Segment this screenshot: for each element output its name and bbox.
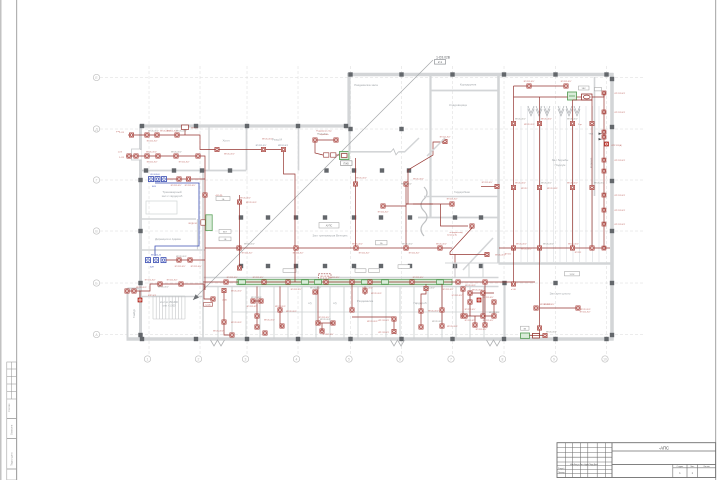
svg-text:ИП 212-3СУ: ИП 212-3СУ	[185, 185, 196, 187]
svg-text:ИП 212-3СУ: ИП 212-3СУ	[483, 297, 494, 299]
svg-text:ИП 212-3СУ: ИП 212-3СУ	[436, 244, 447, 246]
svg-text:Подиум: Подиум	[555, 163, 566, 167]
svg-text:12.0Б: 12.0Б	[205, 305, 211, 307]
svg-text:1-ОЗ.02В: 1-ОЗ.02В	[436, 55, 450, 59]
svg-text:ИП 212-3СУ: ИП 212-3СУ	[378, 212, 389, 214]
dashed zone label above corridor	[319, 274, 332, 278]
svg-text:ИП 212-3СУ: ИП 212-3СУ	[224, 154, 235, 156]
svg-text:ИП 212-3СУ: ИП 212-3СУ	[176, 131, 187, 133]
svg-text:1: 1	[147, 357, 149, 361]
smoke detector (604,112)	[602, 110, 606, 114]
svg-text:ИП 212-3СУ: ИП 212-3СУ	[175, 266, 186, 268]
svg-text:Лист: Лист	[690, 466, 694, 468]
ceiling branch wire	[441, 204, 469, 226]
svg-text:ИП 212-3СУ: ИП 212-3СУ	[561, 81, 572, 83]
SE cluster rooms	[470, 292, 494, 294]
svg-text:ИП 212-3СУ: ИП 212-3СУ	[567, 183, 578, 185]
outer wall: step between wing and main block	[347, 75, 350, 128]
svg-text:ИП 212-3СУ: ИП 212-3СУ	[136, 287, 147, 289]
hall detectors row y123	[511, 121, 515, 125]
svg-text:Б2П: Б2П	[150, 267, 155, 269]
corridor sounder zone band (green)	[237, 279, 452, 284]
svg-text:ИП 212-3СУ: ИП 212-3СУ	[515, 119, 526, 121]
svg-text:ИП 212-3СУ: ИП 212-3СУ	[465, 285, 476, 287]
svg-text:с1-0Б: с1-0Б	[222, 300, 228, 302]
outer wall: top of main block	[347, 73, 614, 76]
svg-text:ИП 212-3СУ: ИП 212-3СУ	[148, 131, 159, 133]
svg-text:ИП 212-3СУ: ИП 212-3СУ	[158, 287, 169, 289]
svg-text:отм. +1.500: отм. +1.500	[163, 304, 176, 307]
scattered wire tags	[136, 119, 605, 334]
svg-text:ИП 212-3СУ: ИП 212-3СУ	[540, 304, 551, 306]
locker drops x318	[317, 287, 319, 324]
smoke detector (177,135)	[175, 133, 179, 137]
cloak room wall	[424, 196, 499, 198]
svg-text:10: 10	[603, 357, 607, 361]
svg-text:ИП 212-3СУ: ИП 212-3СУ	[362, 288, 373, 290]
structural columns	[138, 72, 614, 341]
corridor end detector	[481, 186, 497, 188]
svg-text:ИП 212-3СУ: ИП 212-3СУ	[615, 93, 626, 95]
svg-text:ИП 212-3СУ: ИП 212-3СУ	[567, 119, 578, 121]
sounder boxes in band	[239, 280, 444, 284]
svg-text:Разд.М: Разд.М	[272, 138, 282, 142]
svg-text:ИП 212-3СУ: ИП 212-3СУ	[147, 141, 158, 143]
svg-text:Провер.: Провер.	[558, 472, 566, 474]
smoke detector (604,93)	[602, 91, 606, 95]
svg-text:ИП 212-3СУ: ИП 212-3СУ	[483, 320, 494, 322]
sheet frame left outer line	[0, 0, 2, 480]
svg-text:Подп.и дата: Подп.и дата	[11, 452, 14, 466]
corridor label boxes	[283, 269, 296, 273]
svg-text:ИП 212-3СУ: ИП 212-3СУ	[521, 248, 532, 250]
svg-text:Кладовщица: Кладовщица	[449, 103, 467, 107]
office partition y250	[141, 249, 206, 251]
security loop wire (blue)	[155, 183, 199, 256]
svg-text:ИП 212-3СУ: ИП 212-3СУ	[176, 256, 187, 258]
svg-text:Изм Кол.уч Лист №док Подп Дата: Изм Кол.уч Лист №док Подп Дата	[570, 463, 597, 466]
construction grid vertical axes	[149, 66, 607, 356]
svg-text:ИП 212-3СУ: ИП 212-3СУ	[264, 320, 275, 322]
svg-text:Коридорчик: Коридорчик	[460, 83, 477, 87]
svg-text:2: 2	[198, 357, 200, 361]
svg-text:ИП 212-3СУ: ИП 212-3СУ	[371, 293, 382, 295]
svg-text:Коридор: Коридор	[589, 157, 593, 168]
svg-text:ИП 212-3СУ: ИП 212-3СУ	[160, 131, 171, 133]
locker drops x280	[279, 287, 281, 327]
svg-text:ИП 212-3СУ: ИП 212-3СУ	[524, 124, 535, 126]
sheet frame left inner line	[16, 0, 18, 480]
smoke detector (239,248)	[237, 246, 241, 250]
title block outer	[557, 443, 716, 478]
svg-text:Раздевалка: Раздевалка	[357, 299, 374, 303]
detector loop: wing second row	[126, 156, 205, 171]
svg-text:ИП 212-3СУ: ИП 212-3СУ	[615, 160, 626, 162]
svg-text:ИП 212-3СУ: ИП 212-3СУ	[147, 162, 158, 164]
svg-text:ИП 212: ИП 212	[575, 252, 581, 254]
svg-text:ИП 212-3СУ: ИП 212-3СУ	[146, 152, 157, 154]
svg-text:2 яр: 2 яр	[578, 124, 582, 126]
hall collector line y248	[499, 247, 610, 249]
svg-text:ИП 212-3СУ: ИП 212-3СУ	[352, 244, 363, 246]
smoke detector (604,224)	[602, 222, 606, 226]
svg-text:1-ОЗ: 1-ОЗ	[119, 157, 125, 159]
grid axis bubbles (left column)	[93, 74, 99, 337]
room drops x352 x485	[351, 284, 353, 310]
svg-text:ИП 212-3СУ: ИП 212-3СУ	[428, 311, 439, 313]
stadia cells	[673, 464, 716, 477]
wing room partitions (top rooms)	[208, 126, 210, 171]
svg-text:ИП 212-3СУ: ИП 212-3СУ	[546, 332, 557, 334]
svg-text:ИП 212-3СУ: ИП 212-3СУ	[432, 321, 443, 323]
svg-text:ИП 212-3СУ: ИП 212-3СУ	[256, 145, 267, 147]
label box ЗВ	[521, 326, 530, 330]
svg-text:ИП 212-3СУ: ИП 212-3СУ	[367, 321, 378, 323]
svg-text:ИП 212-3СУ: ИП 212-3СУ	[547, 188, 558, 190]
svg-text:ИП 212-3СУ: ИП 212-3СУ	[275, 306, 286, 308]
svg-text:ИП 212-3СУ: ИП 212-3СУ	[191, 266, 202, 268]
corridor line detectors	[224, 280, 228, 284]
svg-text:зал с гардероб: зал с гардероб	[162, 194, 183, 198]
svg-text:ИП 212-3СУ: ИП 212-3СУ	[293, 253, 304, 255]
wing interior wall y170	[141, 170, 247, 172]
detector loop into control panel	[315, 139, 336, 141]
detector loop: wing north rooms	[128, 135, 284, 150]
smoke detector (136,156)	[134, 154, 138, 158]
svg-text:ИП 212-3СУ: ИП 212-3СУ	[615, 210, 626, 212]
svg-text:Листов: Листов	[704, 466, 710, 468]
svg-text:ИП 212-3СУ: ИП 212-3СУ	[145, 280, 156, 282]
svg-text:ИП 212-3СУ: ИП 212-3СУ	[580, 309, 591, 311]
svg-text:ИП 212-3СУ: ИП 212-3СУ	[240, 198, 251, 200]
svg-text:Раздевалка зала: Раздевалка зала	[354, 83, 378, 87]
room name labels	[155, 83, 571, 306]
locker drops x257	[256, 287, 258, 328]
svg-text:ИП 212-3СУ: ИП 212-3СУ	[317, 134, 328, 136]
svg-text:ИП 212-3СУ: ИП 212-3СУ	[247, 306, 258, 308]
svg-text:ИПР-3СУ: ИПР-3СУ	[148, 295, 157, 297]
smoke detector (198,156)	[196, 154, 200, 158]
diagonal partition wall	[405, 138, 420, 152]
svg-text:ИП 212-3СУ: ИП 212-3СУ	[329, 277, 340, 279]
svg-text:ИП 212-3СУ: ИП 212-3СУ	[440, 137, 451, 139]
svg-text:ИПР 513(А): ИПР 513(А)	[612, 144, 623, 147]
hall south wall	[499, 262, 613, 265]
outer wall: west facade	[139, 125, 142, 341]
svg-text:Гардероб: Гардероб	[413, 301, 426, 305]
riser x239	[239, 195, 241, 268]
office desk	[146, 201, 177, 214]
svg-text:АУПС: АУПС	[326, 225, 333, 228]
svg-text:ИП 212-3СУ: ИП 212-3СУ	[253, 277, 264, 279]
svg-text:ИП 212-3СУ: ИП 212-3СУ	[401, 184, 412, 186]
svg-text:ЗСЖ: ЗСЖ	[570, 274, 575, 276]
locker room partitions (south strip)	[218, 287, 484, 340]
svg-text:ИП 212-3СУ: ИП 212-3СУ	[179, 162, 190, 164]
svg-text:ИП 212-3СУ: ИП 212-3СУ	[171, 185, 182, 187]
smoke detector (129,156)	[127, 154, 131, 158]
gym mats hatching	[528, 106, 580, 116]
svg-text:ИП 212-3СУ: ИП 212-3СУ	[359, 253, 370, 255]
locker drops x437	[421, 284, 426, 327]
sounder + strobe at hall top (green/red)	[568, 92, 577, 100]
svg-text:с/у: с/у	[308, 301, 312, 305]
title block main divider	[611, 443, 613, 478]
svg-text:ИП 212-3СУ: ИП 212-3СУ	[231, 291, 242, 293]
svg-text:потолку 3м: потолку 3м	[447, 235, 457, 237]
svg-text:Г: Г	[96, 178, 98, 182]
wall break marks	[211, 340, 501, 346]
svg-text:ИП 212-3СУ: ИП 212-3СУ	[171, 152, 182, 154]
locker strip mid wall y312	[232, 311, 499, 313]
svg-text:Дирекция и Админ: Дирекция и Админ	[155, 237, 181, 241]
svg-text:ИО 102-20: ИО 102-20	[151, 255, 162, 257]
svg-text:ИП 212-3СУ: ИП 212-3СУ	[286, 311, 297, 313]
svg-text:ИП 212-3СУ: ИП 212-3СУ	[310, 288, 321, 290]
svg-text:ИП 212: ИП 212	[505, 254, 511, 256]
smoke detector (157,135)	[155, 133, 159, 137]
smoke detector (604,160)	[602, 158, 606, 162]
manual call point SE (filled)	[477, 298, 481, 302]
svg-text:ИП 212-3СУ: ИП 212-3СУ	[262, 139, 273, 141]
WC stalls above corridor	[445, 262, 499, 264]
stair room wall	[141, 296, 204, 298]
locker drops x463	[462, 287, 464, 317]
frame attachment table (Согласовано)	[7, 362, 17, 419]
svg-text:ИП 212-3СУ: ИП 212-3СУ	[515, 183, 526, 185]
hall detectors row y86	[527, 84, 531, 88]
hall feeder wires	[514, 85, 567, 87]
title block right rows	[612, 450, 716, 452]
corridor south wall	[203, 286, 499, 288]
svg-text:ИП 212-3СУ: ИП 212-3СУ	[524, 81, 535, 83]
svg-text:ИП 212-3СУ: ИП 212-3СУ	[472, 290, 483, 292]
svg-text:ИП 212-3СУ: ИП 212-3СУ	[476, 329, 487, 331]
svg-text:Раздевалка Зал: Раздевалка Зал	[316, 131, 332, 133]
interior wall row y217	[418, 217, 499, 219]
svg-text:Тамбур: Тамбур	[132, 309, 136, 318]
sports hall floor stripes	[521, 106, 599, 262]
svg-text:8: 8	[502, 357, 504, 361]
svg-text:ЖУ/ДУ-01: ЖУ/ДУ-01	[188, 223, 197, 225]
svg-text:ИП 212-3СУ: ИП 212-3СУ	[251, 297, 262, 299]
svg-text:Холл: Холл	[222, 139, 229, 143]
svg-text:ИП 212-3СУ: ИП 212-3СУ	[413, 179, 424, 181]
svg-text:в 510: в 510	[511, 289, 516, 291]
smoke detector (604,137)	[602, 135, 606, 139]
smoke detector (406,248)	[404, 246, 408, 250]
svg-text:ИП212-3СУ: ИП212-3СУ	[278, 145, 289, 147]
curved partition wall	[421, 187, 427, 236]
svg-text:ИП 212-3СУ: ИП 212-3СУ	[213, 331, 224, 333]
svg-text:ИП 212-3СУ: ИП 212-3СУ	[452, 295, 463, 297]
manual call point (filled)	[604, 142, 608, 146]
riser x205 (corridor)	[204, 171, 206, 290]
svg-text:ИП 212-3СУ: ИП 212-3СУ	[231, 322, 242, 324]
svg-text:ИП 212-3СУ: ИП 212-3СУ	[543, 244, 554, 246]
svg-text:6: 6	[399, 357, 401, 361]
svg-text:ИП 212-3СУ: ИП 212-3СУ	[320, 319, 331, 321]
outer wall: east facade	[610, 73, 614, 341]
zone control (green tall)	[206, 215, 212, 231]
fire control panel (green) near stair core	[340, 152, 350, 160]
svg-text:ИП 212-3СУ: ИП 212-3СУ	[447, 326, 458, 328]
svg-text:ЗВС: ЗВС	[582, 88, 587, 90]
smoke detector (147,156)	[145, 154, 149, 158]
smoke detector (604,248)	[602, 246, 606, 250]
sounder + strobe at dry hall (green/red)	[521, 333, 530, 338]
svg-text:Зал борьбы: Зал борьбы	[552, 158, 569, 162]
svg-text:ИП 212-3СУ: ИП 212-3СУ	[378, 332, 389, 334]
svg-text:ИП 212-3СУ: ИП 212-3СУ	[482, 182, 493, 184]
svg-text:ИП 212-3СУ: ИП 212-3СУ	[568, 244, 579, 246]
svg-text:9: 9	[553, 357, 555, 361]
svg-text:7: 7	[450, 357, 452, 361]
svg-text:ИП 212-3СУ: ИП 212-3СУ	[246, 202, 257, 204]
hall detectors row y187	[511, 185, 515, 189]
svg-text:ИП 212-3СУ: ИП 212-3СУ	[615, 195, 626, 197]
svg-text:ИО 409-8: ИО 409-8	[150, 174, 160, 176]
svg-text:ИП 212-3СУ: ИП 212-3СУ	[167, 280, 178, 282]
svg-text:ИП 212-3СУ: ИП 212-3СУ	[594, 183, 605, 185]
svg-text:ИП 212-3СУ: ИП 212-3СУ	[323, 334, 334, 336]
svg-text:5: 5	[348, 357, 350, 361]
smoke detector (356,248)	[354, 246, 358, 250]
svg-text:ИП 212-3СУ: ИП 212-3СУ	[465, 309, 476, 311]
svg-text:ИП 513: ИП 513	[191, 128, 197, 130]
svg-text:ИП 212-3СУ: ИП 212-3СУ	[541, 119, 552, 121]
svg-text:ИП 212-3СУ: ИП 212-3СУ	[242, 253, 253, 255]
svg-text:ИП 212-3СУ: ИП 212-3СУ	[413, 277, 424, 279]
west entrance porch	[132, 149, 141, 160]
construction grid horizontal axes	[100, 78, 645, 335]
svg-text:Гардеробная: Гардеробная	[454, 190, 470, 194]
svg-text:ИП 212-3СУ: ИП 212-3СУ	[409, 253, 420, 255]
detector loop: changing room M	[284, 150, 296, 283]
smoke detector (131.5,135)	[129, 133, 133, 137]
guard detectors row 1 (red pair)	[167, 178, 205, 180]
svg-text:-АПС: -АПС	[659, 445, 669, 450]
smoke detector (176,156)	[174, 154, 178, 158]
svg-text:Зал тренажеров Вентрех: Зал тренажеров Вентрех	[312, 234, 348, 238]
svg-text:ИП 212: ИП 212	[521, 188, 527, 190]
partition wall with break (right of panel)	[349, 151, 392, 153]
svg-text:ИП 212-3СУ: ИП 212-3СУ	[465, 320, 476, 322]
riser detector & control	[203, 193, 207, 197]
manual call point SW (filled)	[138, 298, 142, 302]
svg-text:ИП 212-3СУ: ИП 212-3СУ	[244, 244, 255, 246]
svg-text:2.1: 2.1	[438, 60, 443, 64]
label box ЗВС	[579, 86, 590, 90]
south-west loop	[127, 284, 213, 299]
corridor north wall	[203, 277, 499, 279]
sheet frame right line	[715, 0, 717, 480]
svg-text:ИП 212-3СУ: ИП 212-3СУ	[424, 288, 435, 290]
svg-text:ИП 212-3СУ: ИП 212-3СУ	[541, 183, 552, 185]
security devices row 1 (blue)	[149, 174, 167, 188]
smoke detector (604,210)	[602, 208, 606, 212]
dry-swimming hall west wall	[503, 283, 505, 339]
svg-text:ИП 212-3СУ: ИП 212-3СУ	[356, 178, 367, 180]
svg-text:Стадия: Стадия	[677, 466, 683, 468]
svg-text:Взам.инв: Взам.инв	[11, 424, 14, 435]
svg-text:ИП 212-3СУ: ИП 212-3СУ	[378, 320, 389, 322]
hall detector	[215, 147, 219, 151]
east corridor diagonal wall	[463, 238, 493, 270]
svg-text:+305 (В): +305 (В)	[215, 195, 223, 197]
svg-text:по подвесному: по подвесному	[449, 232, 462, 234]
svg-text:ИП 212-3СУ: ИП 212-3СУ	[447, 199, 458, 201]
svg-text:1-ОЗ: 1-ОЗ	[119, 132, 125, 134]
svg-text:ИП 212-3СУ: ИП 212-3СУ	[615, 224, 626, 226]
svg-text:ИП 212-3СУ: ИП 212-3СУ	[516, 244, 527, 246]
svg-text:Соглас.: Соглас.	[7, 403, 11, 412]
panel label box ПЖК	[341, 161, 353, 166]
storeroom walls (Кладовщик)	[429, 75, 431, 219]
svg-text:ИП 212-3СУ: ИП 212-3СУ	[443, 289, 454, 291]
NE corridor wall	[594, 77, 596, 196]
svg-text:ИП 212-3СУ: ИП 212-3СУ	[489, 312, 500, 314]
frame attachment boxes lower	[7, 419, 17, 480]
title block left revision grid	[557, 443, 612, 478]
security devices row 2 (blue)	[146, 255, 167, 269]
svg-text:Зал для сухого: Зал для сухого	[550, 292, 571, 296]
svg-text:с/у: с/у	[333, 301, 337, 305]
drop to dry hall	[513, 248, 515, 284]
outer wall: top of west wing	[139, 124, 350, 127]
svg-text:ПЖК: ПЖК	[344, 162, 350, 165]
gym collector line y248	[205, 247, 452, 249]
south-west annex walls	[127, 288, 129, 340]
label boxes near riser	[216, 197, 230, 201]
svg-text:ИП 212-3СУ: ИП 212-3СУ	[227, 277, 238, 279]
dressing room detectors	[406, 142, 445, 204]
office loop y260	[166, 259, 205, 261]
outer wall: south facade	[127, 337, 614, 340]
smoke detector (147,135)	[145, 133, 149, 137]
grid axis bubbles (bottom row)	[144, 356, 608, 362]
svg-text:4: 4	[296, 357, 298, 361]
staircase	[153, 296, 185, 319]
svg-text:ИП 212-3СУ: ИП 212-3СУ	[402, 244, 413, 246]
office partition y213	[141, 218, 197, 220]
hall west wall	[497, 75, 500, 264]
tambour riser	[224, 288, 232, 335]
svg-text:ИП 212-3СУ: ИП 212-3СУ	[615, 112, 626, 114]
east corridor branch	[450, 228, 487, 255]
smoke detector (604,195)	[602, 193, 606, 197]
smoke detector (158,156)	[156, 154, 160, 158]
corridor west wall x203	[202, 171, 204, 340]
smoke detector (440,248)	[438, 246, 442, 250]
locker drops x365	[364, 287, 366, 296]
svg-text:Разраб.: Разраб.	[558, 468, 565, 470]
smoke detector (296,248)	[294, 246, 298, 250]
smoke detector (604,132)	[602, 130, 606, 134]
corridor loop wire through band	[203, 281, 535, 283]
diagonal leader line to sheet reference	[193, 60, 433, 300]
smoke detector (604,171)	[602, 169, 606, 173]
east riser wire	[603, 91, 605, 250]
svg-text:3: 3	[245, 357, 247, 361]
svg-text:ИП 212-3СУ: ИП 212-3СУ	[580, 312, 591, 314]
svg-text:ИП 212-3СУ: ИП 212-3СУ	[291, 289, 302, 291]
